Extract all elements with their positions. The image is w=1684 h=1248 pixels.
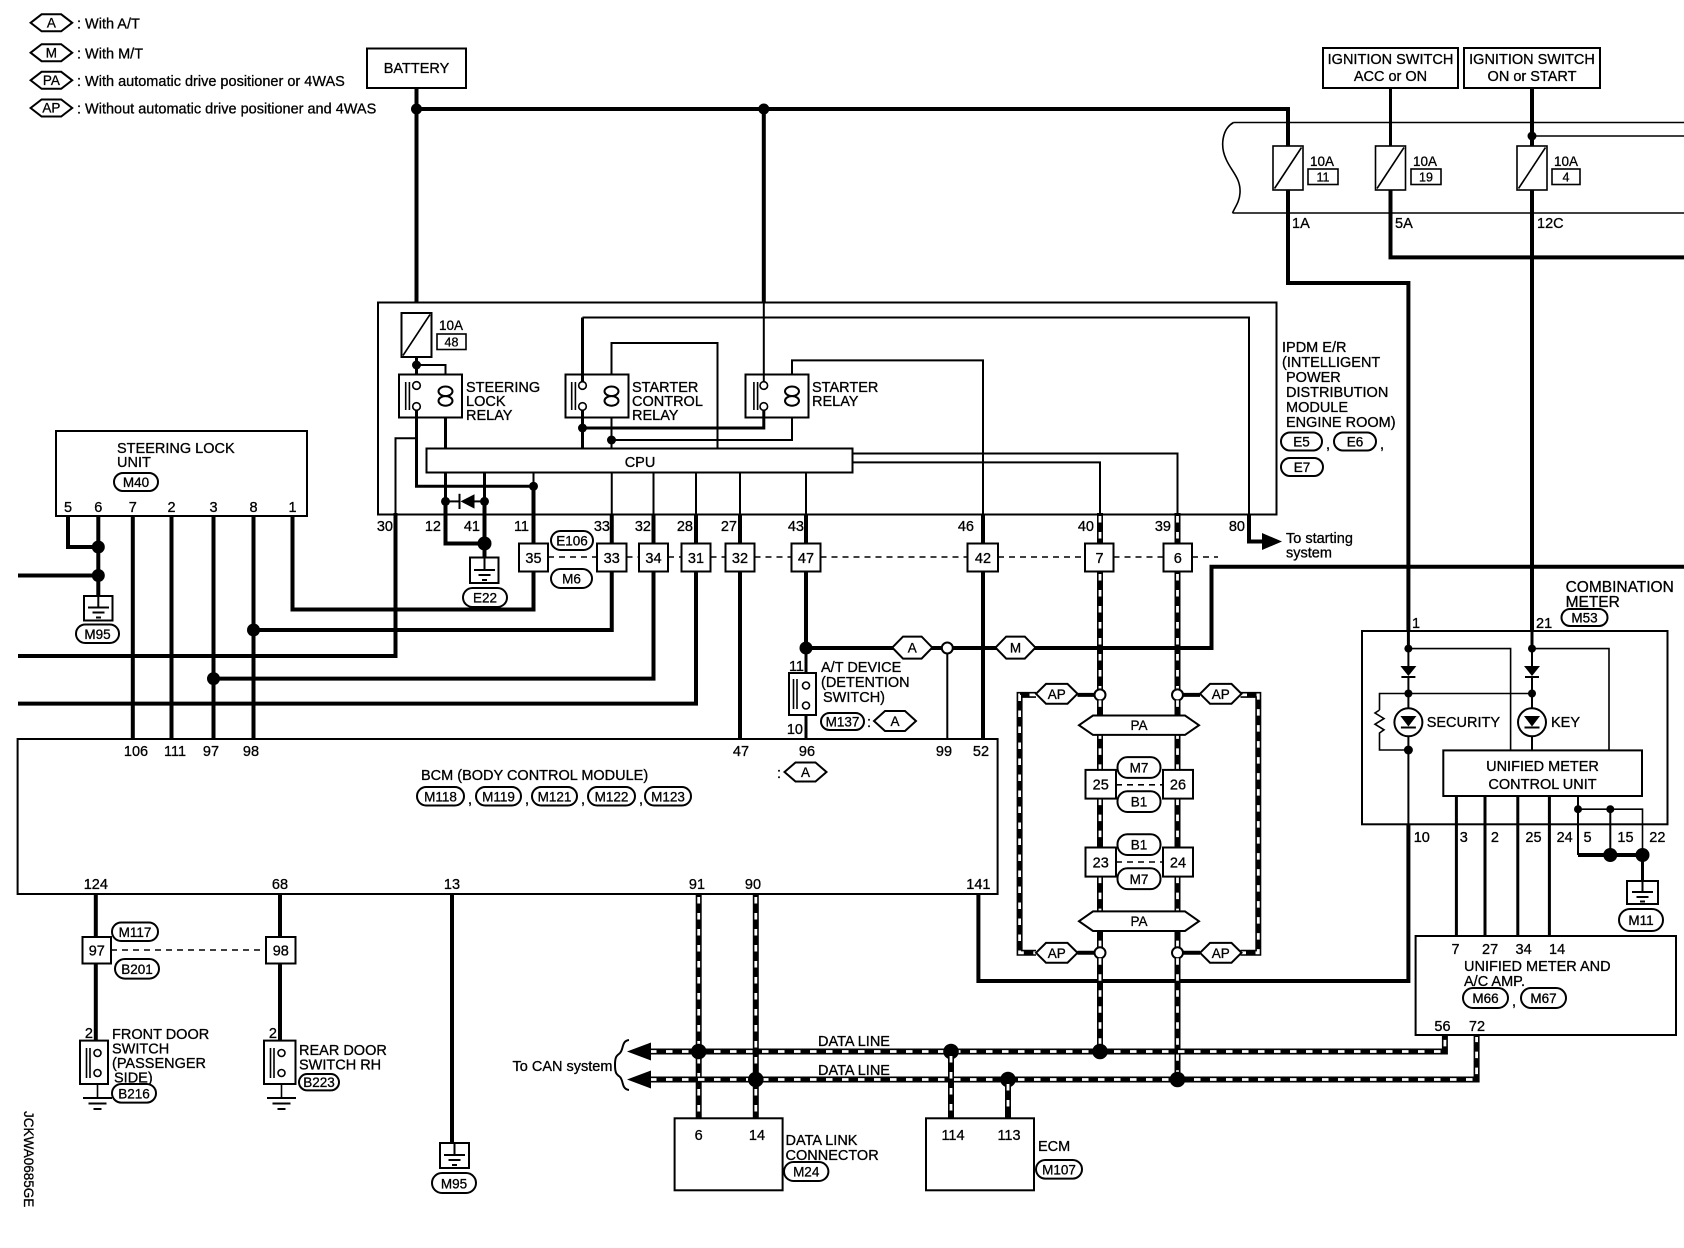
wire starter control relay coil feed [612,343,718,449]
svg-text:52: 52 [973,744,989,760]
wire BCM 13 to ground [450,894,454,1143]
svg-text:90: 90 [745,877,761,893]
wire control unit pin 5 [1577,796,1579,855]
symbol A hexagon M137 [874,711,916,731]
legend symbol PA [31,72,345,90]
svg-text:B216: B216 [118,1087,150,1102]
svg-text:DATA LINE: DATA LINE [818,1034,890,1050]
svg-text:DISTRIBUTION: DISTRIBUTION [1286,385,1388,401]
wire CPU to pin 39 [853,454,1178,515]
wire M40 pin 5 [68,516,98,547]
svg-text:39: 39 [1155,519,1171,535]
wire steering lock relay coil to CPU [444,418,447,449]
connector E106 [551,531,593,550]
symbol AP hexagon top-left [1036,684,1078,704]
svg-text:(DETENTION: (DETENTION [821,675,910,691]
svg-text:SECURITY: SECURITY [1427,715,1501,731]
wire starter relay coil to pin 46 [792,360,983,514]
node pins 12/41 ground tie [478,537,492,551]
svg-text:system: system [1286,546,1332,562]
svg-text:28: 28 [677,519,693,535]
ignition switch ACC or ON [1323,48,1458,88]
relay STARTER RELAY [746,375,879,418]
svg-text:99: 99 [936,744,952,760]
wire M40 pin 6 to ground [96,516,100,596]
wire battery to starter relay [762,109,766,303]
wire CPU to pin 33 [611,473,613,515]
connector B201 [115,959,159,979]
svg-text:To CAN system: To CAN system [513,1059,613,1075]
svg-text:25: 25 [1525,830,1541,846]
svg-text:8: 8 [249,500,257,516]
svg-text:MODULE: MODULE [1286,400,1348,416]
wire to unified meter control unit left [1408,649,1510,751]
wire M40 pin 7 to BCM 106 [131,516,135,739]
brace [615,1040,629,1090]
wire ECM 114 (shielded) [948,1052,954,1119]
svg-text:RELAY: RELAY [632,408,679,424]
node starter relay branch [758,104,769,115]
wire fuse 19 output 5A [1391,190,1684,257]
wire ground tie [1578,853,1643,857]
wire connector 97 to switch [94,964,98,1041]
combination meter box [1362,631,1668,824]
wire to unified meter control unit right [1532,649,1609,751]
svg-text:35: 35 [525,551,541,567]
svg-text:M66: M66 [1472,991,1498,1006]
wire connector 47 to A/T device node [804,572,808,649]
wire IPDM 46 to connector 42 [981,515,985,544]
wire fuse48 to relay [415,357,418,382]
data link connector M24 [675,1118,879,1190]
link dash 25-26 [1116,784,1163,786]
node A/M connector circle [942,643,953,654]
symbol AP hexagon bottom-left [1036,943,1078,963]
svg-text:E5: E5 [1293,435,1310,450]
wire starter control relay to starter relay contact [581,410,584,449]
svg-text:DATA LINK: DATA LINK [786,1133,858,1149]
svg-text:M: M [1010,641,1021,656]
wire LED key to control unit [1531,736,1533,750]
svg-text:46: 46 [958,519,974,535]
svg-text:97: 97 [203,744,219,760]
connector 98 [266,937,296,964]
svg-text:3: 3 [209,500,217,516]
connector 25 [1086,770,1117,799]
wire ECM 113 (shielded) [1005,1080,1011,1119]
switch A/T device (detention switch) M137 [787,659,910,738]
wire LED to pin 10 [1407,736,1409,824]
svg-text:M95: M95 [441,1177,467,1192]
relay STEERING LOCK RELAY [399,375,540,425]
connector 26 [1163,770,1193,799]
node resistor bottom [1404,746,1413,755]
svg-text:A: A [908,641,917,656]
svg-text:7: 7 [129,500,137,516]
wire pin 12 [444,473,447,502]
svg-text:JCKWA0685GE: JCKWA0685GE [21,1111,36,1207]
connector 24 [1163,848,1193,877]
svg-text:IGNITION SWITCH: IGNITION SWITCH [1469,52,1595,68]
svg-text:124: 124 [84,877,108,893]
svg-text:34: 34 [1516,942,1532,958]
node dot line1 ECM114 [943,1044,959,1060]
symbol AP hexagon bottom-right [1200,943,1242,963]
wire A/M select bus [806,567,1684,648]
wire BCM 90 to data link connector 14 (shielded) [753,894,759,1118]
ignition switch ON or START [1464,48,1600,88]
wire CAN data line 2 (shielded) [648,1035,1477,1080]
connector M6 [551,569,592,588]
svg-text:M107: M107 [1042,1163,1076,1178]
svg-text:24: 24 [1170,856,1186,872]
svg-text:32: 32 [732,551,748,567]
wire connector 34 to M40 pin 3 [214,572,654,679]
svg-text:5: 5 [64,500,72,516]
wire left column to data line 1 (shielded) [1097,958,1103,1051]
ground link line [1578,809,1643,855]
svg-text:BCM (BODY CONTROL MODULE): BCM (BODY CONTROL MODULE) [421,768,648,784]
wire starter relay coil tie [611,418,613,449]
IPDM E/R box [378,303,1277,515]
node circle left top [1095,689,1106,700]
fuse 10A 4 [1517,146,1580,190]
svg-text:ON or START: ON or START [1488,69,1577,85]
BCM (body control module) box [18,739,998,894]
wire connector 42 to BCM 52 [981,572,985,740]
connector 23 [1086,848,1117,877]
svg-text:23: 23 [1093,856,1109,872]
svg-text:A: A [801,765,810,780]
wire fuse 4 output 12C [1530,190,1534,631]
svg-text:24: 24 [1557,830,1573,846]
LED SECURITY [1394,708,1500,736]
node fuse 48 output [412,361,421,370]
wire PA column left (shielded) [1097,700,1103,947]
connector 32 [726,544,755,572]
wire steering lock relay contact to CPU node [417,410,534,486]
node pin5/6 join [92,541,105,554]
svg-text:DATA LINE: DATA LINE [818,1063,890,1079]
node resistor top [1404,690,1412,698]
link dash 97-98 [111,949,266,951]
svg-text:7: 7 [1452,942,1460,958]
wire M40 pin 8 to BCM 98 [252,516,256,739]
connector 7 [1085,544,1114,572]
legend symbol AP [31,100,377,118]
connector M118 [417,787,472,808]
svg-text:26: 26 [1170,778,1186,794]
svg-text:10A: 10A [1554,154,1578,169]
svg-text:E106: E106 [556,534,588,549]
svg-text:72: 72 [1469,1019,1485,1035]
svg-text:M24: M24 [793,1165,820,1180]
node dot line1 AP left [1092,1044,1108,1060]
legend symbol A [31,14,140,32]
svg-text:PA: PA [1130,914,1147,929]
connector M123 [645,787,691,806]
node circle right top [1172,689,1183,700]
wire to ground M11 [1641,855,1644,881]
node battery junction [411,104,422,115]
svg-text:22: 22 [1649,830,1665,846]
wire control unit pin 3 [1455,796,1458,936]
svg-text:97: 97 [89,944,105,960]
connector M119 [476,787,529,808]
wire control unit pin 25 [1516,796,1519,936]
svg-text:1A: 1A [1292,216,1310,232]
svg-text:31: 31 [688,551,704,567]
svg-text:M67: M67 [1530,991,1556,1006]
svg-text:15: 15 [1617,830,1633,846]
svg-text:19: 19 [1419,171,1433,185]
wire BCM 141 to meter pin 10 [978,824,1408,981]
label COMBINATION METER [1566,579,1674,611]
svg-text::: : [777,766,781,782]
unified meter control unit [1443,750,1642,796]
symbol A hexagon BCM [777,763,827,783]
svg-text:6: 6 [94,500,102,516]
ground M95 [76,596,119,643]
connector 31 [682,544,711,572]
wire control unit pin 24 [1548,796,1551,936]
wire BCM 68 to rear door switch [278,894,282,937]
label UNIFIED METER AND A/C AMP [1464,959,1611,990]
svg-text:12: 12 [425,519,441,535]
node security anode [1404,645,1412,653]
svg-text:56: 56 [1434,1019,1450,1035]
wire connector 7 branch (shielded) [1097,572,1103,690]
connector 42 [968,544,999,572]
svg-text:30: 30 [377,519,393,535]
node dot line1 BCM91 [691,1044,707,1060]
svg-text:27: 27 [1482,942,1498,958]
node key anode [1528,645,1536,653]
svg-text:42: 42 [975,551,991,567]
svg-text:B1: B1 [1131,795,1148,810]
svg-text:A: A [47,16,56,31]
svg-text:BATTERY: BATTERY [384,61,450,77]
svg-text:10A: 10A [1310,154,1334,169]
ECM M107 [926,1118,1082,1190]
connector 6 [1164,544,1193,572]
svg-text:,: , [1326,437,1330,453]
svg-text:UNIFIED METER AND: UNIFIED METER AND [1464,959,1611,975]
wire AP bypass left (shielded) [1020,695,1036,953]
symbol M hexagon [996,637,1036,659]
wire BCM 91 to data link connector 6 (shielded) [696,894,702,1118]
wire battery feed bus [415,88,419,313]
connector B1 upper [1118,791,1161,812]
ground M11 [1619,881,1663,931]
svg-text:A/T DEVICE: A/T DEVICE [821,660,902,676]
connector M7 upper [1118,757,1161,778]
svg-text:40: 40 [1078,519,1094,535]
node circle left bottom [1095,947,1106,958]
connector M66 [1463,988,1516,1010]
wire BCM 124 to front door switch [94,894,98,937]
diode key [1524,666,1540,677]
svg-text:48: 48 [445,336,459,350]
arrow CAN line 2 [627,1071,651,1089]
svg-text:PA: PA [43,73,60,88]
wire diode to LED [1407,677,1409,709]
svg-text:UNIFIED METER: UNIFIED METER [1486,759,1599,775]
svg-text:AP: AP [42,101,60,116]
wire IPDM 32 to connector 34 [652,515,656,544]
svg-text:114: 114 [941,1128,964,1144]
steering lock unit M40 [56,431,307,516]
node pin 8 branch [247,624,260,637]
svg-text:,: , [468,792,472,808]
fuse 10A 48 [402,313,467,357]
svg-text:: With A/T: : With A/T [77,17,140,33]
svg-text:IGNITION SWITCH: IGNITION SWITCH [1328,52,1454,68]
svg-text:CPU: CPU [625,455,656,471]
svg-text:B1: B1 [1131,838,1148,853]
CPU [427,449,853,473]
svg-text:6: 6 [1174,551,1182,567]
node dot line2 BCM90 [748,1072,764,1088]
node connector 47 branch [800,642,813,655]
svg-text:M119: M119 [482,790,515,805]
svg-text:A: A [890,714,899,729]
connector M117 [112,923,158,942]
svg-text:M122: M122 [595,790,629,805]
svg-text:M137: M137 [826,715,860,730]
switch rear door RH B223 [264,1026,387,1090]
svg-text:98: 98 [273,944,289,960]
resistor R [1375,694,1408,751]
svg-text:,: , [1380,437,1384,453]
connector 35 [519,544,548,572]
node circle right bottom [1172,947,1183,958]
wire ON/START feed [1530,88,1534,146]
svg-text:AP: AP [1048,687,1066,702]
wire connector 33 to M40 pin 8 [254,572,612,631]
wire pin 41 [483,473,486,502]
svg-text:B223: B223 [303,1075,335,1090]
diode security [1400,666,1416,677]
svg-text:M53: M53 [1571,611,1597,626]
svg-text:47: 47 [798,551,814,567]
svg-text:M7: M7 [1130,872,1149,887]
node ground bus join [92,569,105,582]
wire IPDM 43 to connector 47 [804,515,808,544]
svg-text:SWITCH): SWITCH) [823,690,885,706]
connector M67 [1521,988,1566,1008]
svg-text:1: 1 [288,500,296,516]
wire IPDM 39 to connector 6 (shielded) [1175,513,1181,544]
svg-text:2: 2 [167,500,175,516]
wire battery to starter relay contact [763,303,765,383]
fuse 10A 19 [1376,146,1442,190]
connector link dashes [548,556,1218,558]
symbol PA banner bottom [1079,911,1199,931]
svg-text:E22: E22 [473,591,497,606]
symbol A hexagon [892,637,932,659]
svg-text:: With M/T: : With M/T [77,46,143,62]
svg-text:IPDM E/R: IPDM E/R [1282,340,1346,356]
wire CPU to pin 43 [805,473,807,515]
wire CPU to pin 32 [653,473,655,515]
svg-text:47: 47 [733,744,749,760]
svg-text:: With automatic drive positio: : With automatic drive positioner or 4WA… [77,74,345,90]
connector 97 [83,937,112,964]
node tie 22 [1636,848,1650,862]
svg-text:RELAY: RELAY [812,394,859,410]
svg-text:10: 10 [1414,830,1430,846]
ground rear door switch [267,1084,296,1109]
wire CAN data line 1 (shielded) [648,1035,1445,1052]
wire IPDM 28 to connector 31 [694,515,698,544]
svg-text:,: , [581,792,585,808]
wire pin 80 to starting system [1249,515,1263,542]
symbol AP hexagon top-right [1200,684,1242,704]
ground front door switch [83,1084,112,1109]
svg-text:1: 1 [1412,616,1420,632]
symbol PA banner top [1079,716,1199,735]
connector 47 [792,544,821,572]
svg-text:,: , [1512,994,1516,1010]
svg-text:21: 21 [1536,616,1552,632]
svg-text:11: 11 [789,659,804,675]
connector M122 [588,787,643,808]
wire pin 11 [532,486,536,543]
wire CPU to pin 27 [739,473,741,515]
svg-text:5A: 5A [1395,216,1413,232]
svg-text:41: 41 [464,519,480,535]
svg-text:: Without automatic drive posi: : Without automatic drive positioner and… [77,102,376,118]
wire node to BCM 99 [946,654,948,740]
svg-text:34: 34 [645,551,661,567]
wire pin 30 [396,438,417,514]
wire control unit pin 2 [1484,796,1487,936]
svg-text:E6: E6 [1347,435,1364,450]
svg-text:33: 33 [594,519,610,535]
wire ACC feed [1389,88,1392,146]
node ON/START tap [1528,132,1537,141]
wire AP bypass right (shielded) [1241,695,1259,953]
svg-text:68: 68 [272,877,288,893]
svg-text:96: 96 [799,744,815,760]
svg-text:E7: E7 [1294,460,1311,475]
svg-text:12C: 12C [1537,216,1564,232]
arrow CAN line 1 [627,1043,651,1061]
connector M53 [1562,609,1608,626]
unified meter and A/C amp box [1416,936,1676,1035]
svg-text:14: 14 [749,1128,765,1144]
node dot line2 AP right [1170,1072,1186,1088]
wire M40 pin 2 to BCM 111 [170,516,174,739]
svg-text:113: 113 [997,1128,1020,1144]
svg-text:ENGINE ROOM): ENGINE ROOM) [1286,415,1396,431]
wire connector 32 to BCM 47 [738,572,742,740]
node CPU pin 11 junction [529,482,538,491]
svg-text:7: 7 [1095,551,1103,567]
svg-text::: : [867,715,871,731]
svg-text:2: 2 [1491,830,1499,846]
svg-text:PA: PA [1130,718,1147,733]
wire IPDM 27 to connector 32 [738,515,742,544]
svg-text:M121: M121 [538,790,572,805]
svg-text:10A: 10A [1413,154,1437,169]
wire CPU to pin 28 [695,473,697,515]
svg-text:,: , [525,792,529,808]
wire M40 pin 3 to BCM 97 [212,516,216,739]
ground M95 lower [432,1143,476,1193]
svg-text:M6: M6 [562,572,581,587]
